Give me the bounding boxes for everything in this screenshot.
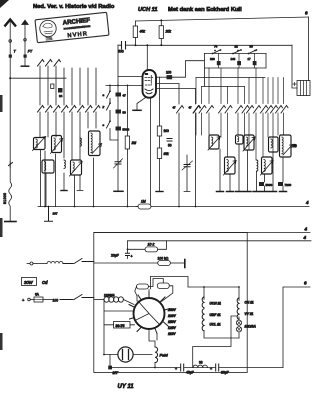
svg-text:24: 24 [59, 94, 63, 98]
resistor 100 right of tube [156, 76, 167, 78]
tube bottom to ground [137, 98, 146, 111]
free coil bumps x84 [80, 138, 81, 146]
svg-text:74: 74 [214, 45, 218, 49]
component 24 black [58, 88, 63, 93]
oscillator verticals to grounds [220, 144, 283, 191]
svg-text:100: 100 [53, 299, 59, 303]
wire antenna 1 down [9, 58, 11, 162]
svg-text:65k: 65k [164, 152, 170, 156]
NVHR archive stamp [35, 12, 109, 42]
scan artifact edge blob 1 [0, 95, 3, 112]
svg-text:CH 11: CH 11 [245, 301, 254, 305]
small ground mid [61, 190, 67, 192]
antenna 2 [22, 20, 28, 24]
resistor 25k [160, 19, 162, 21]
variable capacitor mid right [184, 165, 190, 167]
oscillator switch row [194, 106, 289, 114]
svg-text:47: 47 [173, 106, 177, 110]
diode tick on left wire [9, 162, 13, 167]
svg-text:16Ω/3A: 16Ω/3A [245, 325, 257, 329]
svg-text:5000: 5000 [266, 183, 273, 187]
svg-text:25k: 25k [165, 30, 172, 34]
svg-text:17: 17 [248, 57, 252, 61]
svg-text:47: 47 [189, 106, 193, 110]
svg-text:140: 140 [231, 57, 236, 61]
band switch row 1 [38, 60, 61, 67]
svg-text:240V: 240V [167, 308, 177, 312]
30-75 box [114, 322, 131, 329]
resistor links above circle [137, 284, 149, 289]
matrix verticals to coils [40, 112, 96, 160]
oscillator verticals [196, 68, 284, 104]
tube left pins [106, 77, 143, 86]
scan artifact corner mark [0, 0, 9, 8]
main bus 4 (y206.5) [38, 206, 309, 208]
svg-text:5000: 5000 [123, 128, 130, 132]
20uF capacitor in box [127, 241, 129, 253]
svg-text:1M: 1M [141, 200, 146, 204]
right loop net 6 [283, 287, 310, 368]
10k resistor [128, 248, 146, 250]
100k resistor with terminal [158, 261, 171, 266]
tube cathode long drop [149, 98, 151, 207]
svg-text:45µF: 45µF [186, 371, 194, 375]
svg-text:30: 30 [250, 45, 254, 49]
svg-text:47: 47 [123, 94, 127, 98]
junction and horizontal wire y78 [9, 77, 11, 79]
wire x179 with switch 47 [178, 84, 180, 207]
svg-text:50: 50 [293, 144, 297, 148]
svg-text:20µF: 20µF [111, 254, 119, 258]
svg-text:100: 100 [164, 129, 170, 133]
svg-text:500: 500 [118, 50, 124, 54]
svg-text:22: 22 [235, 45, 239, 49]
switch column x110 [107, 85, 111, 128]
svg-text:100 kΩ: 100 kΩ [158, 256, 169, 260]
resistor 46k [134, 21, 136, 26]
svg-text:+: + [175, 367, 177, 371]
svg-text:UCH 11: UCH 11 [138, 7, 157, 13]
svg-text:125V: 125V [168, 326, 177, 330]
Feld coil [155, 347, 158, 363]
power supply box [94, 233, 247, 373]
wire y45 to right [134, 44, 136, 46]
electrolytic can right [292, 45, 297, 88]
capacitor 500 [118, 44, 135, 46]
svg-text:Feld: Feld [160, 353, 169, 358]
svg-text:MT: MT [113, 371, 119, 375]
capacitor column x118 [117, 45, 119, 191]
switch matrix verticals top [40, 66, 96, 105]
top bus 6 (y19) [135, 17, 308, 21]
resistor 81000 (wavy vertical) [9, 167, 12, 221]
wire x195 with switch 47 [195, 89, 197, 207]
svg-text:30W: 30W [24, 280, 34, 285]
svg-text:UCL 11: UCL 11 [210, 323, 221, 327]
svg-text:Met dank aan Eckhard Kull: Met dank aan Eckhard Kull [168, 7, 242, 13]
coil cluster A [33, 137, 46, 151]
mains line 1 [33, 263, 47, 265]
right coil clusters row1 [208, 135, 297, 157]
bus 4b (y232.5) [94, 232, 310, 234]
ground bars right bank [217, 191, 287, 193]
svg-text:7200: 7200 [285, 183, 292, 187]
inner connections [193, 316, 237, 368]
svg-text:UCH 11: UCH 11 [210, 302, 222, 306]
svg-text:Cd: Cd [42, 280, 48, 285]
trimmer switches [213, 50, 257, 54]
coil cluster E tall [89, 131, 102, 156]
svg-text:50: 50 [123, 111, 127, 115]
svg-text:110V: 110V [168, 332, 176, 336]
svg-text:150V: 150V [168, 320, 177, 324]
oscillator verticals below switches [196, 113, 284, 160]
svg-text:Ned. Ver. v. Historie v/d Radi: Ned. Ver. v. Historie v/d Radio [33, 4, 115, 10]
tube right pins to switch wires [156, 84, 196, 89]
ground stub with label on bus [45, 207, 53, 222]
bus 4c (y240.8) [128, 240, 311, 242]
scan artifact edge blob 2 [0, 218, 3, 237]
svg-text:33: 33 [199, 361, 203, 365]
coil cluster D [70, 160, 83, 176]
svg-text:UY 11: UY 11 [118, 384, 135, 390]
svg-text:+: + [210, 367, 212, 371]
resistor 1M on bus [136, 206, 138, 208]
svg-text:100: 100 [210, 57, 215, 61]
svg-text:VY 11: VY 11 [245, 312, 254, 316]
svg-text:UBF 11: UBF 11 [210, 313, 221, 317]
antenna 1 [5, 20, 15, 26]
svg-text:100: 100 [166, 71, 172, 75]
right heater chain [238, 287, 240, 301]
lamp [118, 347, 133, 362]
trimmer caps bottom right [259, 182, 264, 186]
variable capacitor left [115, 162, 121, 164]
svg-text:81000: 81000 [3, 193, 7, 204]
ground left bottom [5, 221, 16, 223]
heater chain column [188, 286, 239, 288]
oscillator bus rows [196, 68, 266, 86]
verticals coils to bus [41, 150, 94, 207]
svg-text:10 k: 10 k [148, 243, 155, 247]
oscillator trimmer switch bus [204, 52, 266, 54]
component B small [51, 84, 54, 89]
30W box [22, 278, 37, 286]
right coil clusters row2 [224, 157, 274, 175]
bottom capacitors line [110, 367, 283, 369]
svg-text:30-75: 30-75 [116, 324, 125, 328]
svg-text:4: 4 [303, 235, 307, 240]
free coil bumps x66 [64, 160, 65, 168]
svg-text:46k: 46k [140, 30, 146, 34]
svg-text:+: + [131, 255, 133, 259]
svg-text:50: 50 [168, 144, 172, 148]
coil cluster B [51, 136, 63, 154]
coil cluster C [42, 160, 54, 173]
tube UCH11 [143, 70, 157, 98]
band switch row 2 [38, 106, 100, 113]
svg-text:220V: 220V [167, 314, 177, 318]
svg-text:107: 107 [53, 212, 58, 216]
svg-text:20µF: 20µF [221, 371, 229, 375]
svg-text:4: 4 [304, 227, 308, 232]
rectifier circle (UY11 base) [134, 298, 165, 329]
mid resistor stack x159.5 [159, 77, 161, 126]
scan artifact edge blob 3 [0, 333, 3, 350]
svg-text:4: 4 [305, 200, 309, 205]
trimmer capacitors 100 140 17 [219, 53, 255, 61]
column x127 with resistor 2M [126, 85, 128, 136]
svg-text:2M: 2M [131, 141, 137, 145]
